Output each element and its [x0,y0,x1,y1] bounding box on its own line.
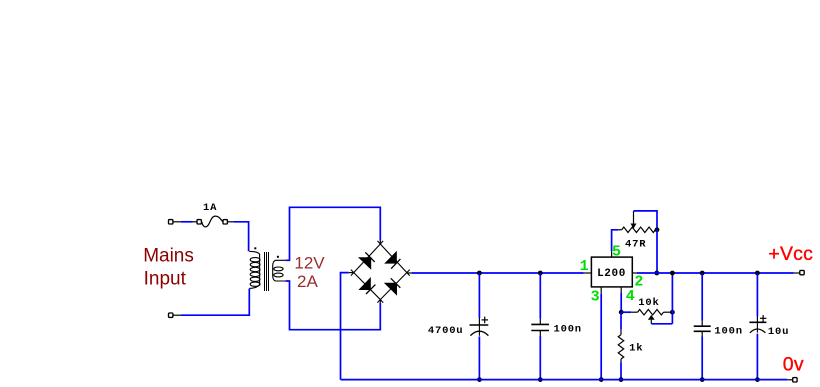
capacitor C1 4700u [470,273,489,380]
svg-text:3: 3 [591,288,600,305]
node: junction 10u on 0V rail [755,377,760,382]
label: C1 value 4700u [428,325,464,337]
wire: 0V rail [341,379,793,381]
node: +Vcc output terminal [800,270,804,274]
node: junction 47R on +Vcc rail [654,271,659,276]
label: pin 4 [626,288,635,305]
capacitor C2 100n [531,273,549,380]
label: R1 value 1k [629,343,643,355]
wire: 1k to 0V rail [620,359,622,380]
node: junction 10k on +Vcc rail [670,271,675,276]
wire: L200 pin 2 output rail [632,272,799,274]
wire: L200 pin 3 to 0V rail [600,287,602,380]
transformer T1 secondary winding [273,260,286,281]
resistor VR1 wiper [631,211,658,230]
label: C4 polarity + [760,315,767,322]
node: junction 100n2 on +Vcc rail [700,271,705,276]
label: VR2 value 10k [638,297,659,309]
transformer T1 core [265,252,269,291]
node: 0v output terminal [793,378,797,382]
svg-text:1k: 1k [629,343,643,355]
label: Mains Input [143,246,194,290]
label: C2 value 100n [554,323,582,335]
capacitor C4 10u [749,273,766,380]
svg-text:0v: 0v [783,353,804,375]
label: pin 5 [612,243,621,260]
node: junction 4700u on 0V rail [477,377,482,382]
op-amp U1 L200 regulator box [591,257,632,287]
svg-text:1: 1 [580,258,589,275]
node: junction 100n2 on 0V rail [700,377,705,382]
node: mains neutral terminal [169,313,182,317]
wire: L200 pin 4 down [620,287,622,312]
label: 0v [783,353,804,375]
diode D4 (bridge bottom-right, AC-bottom to DC+) [377,270,409,303]
wire: pin4 junction to 10k [621,311,637,313]
wire: neutral terminal to transformer primary bottom [181,289,249,316]
label: pin 1 [580,258,589,275]
svg-text:10k: 10k [638,297,659,309]
resistor VR2 wiper [648,315,673,324]
svg-text:Mains: Mains [143,246,194,267]
label: C1 polarity + [482,317,489,324]
svg-text:100n: 100n [554,323,582,335]
resistor VR1 47R [622,227,657,233]
wire: live terminal to fuse [181,221,193,223]
node: junction 1k on 0V rail [619,377,624,382]
fuse F1 1A [193,216,234,227]
svg-text:L200: L200 [597,268,626,280]
label: secondary rating 12V 2A [294,254,325,291]
node: pin4 junction [619,310,624,315]
label: pin 3 [591,288,600,305]
node: junction 10u on +Vcc rail [755,271,760,276]
node: 10k right junction [670,310,675,315]
wire: fuse to transformer primary top [234,222,249,251]
svg-text:Input: Input [144,269,187,290]
svg-text:2A: 2A [297,272,318,291]
label: C4 value 10u [768,326,789,338]
svg-text:10u: 10u [768,326,789,338]
svg-text:4700u: 4700u [428,325,464,337]
wire: bridge DC+ to L200 pin 1 [407,272,592,274]
svg-text:4: 4 [626,288,635,305]
label: C3 value 100n [714,326,742,338]
node: 47R junction [655,227,660,232]
wire: 10k to +Vcc rail [671,273,673,324]
resistor R1 1k [618,335,624,359]
transformer T1 primary phase dot [254,247,256,249]
svg-text:47R: 47R [625,239,646,251]
wire: pin4 junction to 1k [620,312,622,335]
wire: L200 pin 5 up to 47R [612,230,622,257]
node: junction pin3 on 0V rail [599,377,604,382]
svg-text:12V: 12V [294,254,325,273]
diode D1 (bridge top-left, DC- to AC-top) [351,241,383,276]
label: +Vcc [768,243,813,265]
wire: secondary bottom to bridge AC bottom [286,281,381,330]
label: fuse value 1A [203,202,217,214]
label: pin 2 [634,273,643,290]
node: junction 4700u on +rail [477,271,482,276]
transformer T1 primary winding [249,251,260,288]
svg-text:100n: 100n [714,326,742,338]
wire: secondary top to bridge AC top [286,207,381,260]
label: VR1 value 47R [625,239,646,251]
resistor VR2 10k [638,309,673,315]
node: mains live terminal [169,220,182,224]
svg-text:+Vcc: +Vcc [768,243,813,265]
transformer T1 secondary phase dot [277,256,279,258]
diode D2 (bridge top-right, AC-top to DC+) [377,241,409,276]
wire: 47R to output rail [656,230,658,273]
svg-text:5: 5 [612,243,621,260]
diode D3 (bridge bottom-left, DC- to AC-bottom) [351,270,383,303]
wire: bridge DC- to 0V rail [341,273,354,380]
node: junction 100n on 0V rail [538,377,543,382]
svg-text:2: 2 [634,273,643,290]
svg-text:1A: 1A [203,202,217,214]
capacitor C3 100n output [694,273,711,380]
node: junction 100n on +rail [538,271,543,276]
